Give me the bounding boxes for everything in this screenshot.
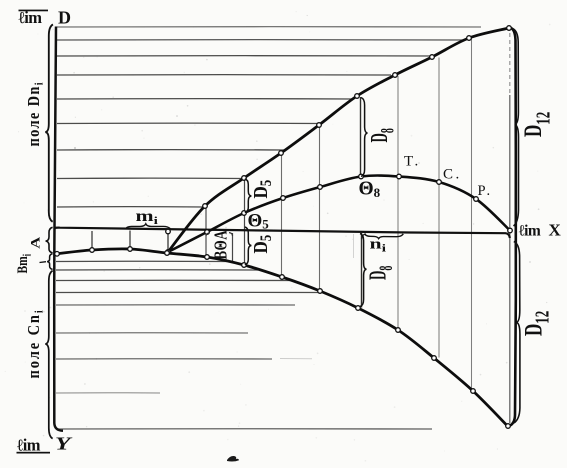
brace D5 upper: from curve Dn to curve Theta: [245, 179, 252, 213]
svg-text:Y: Y: [55, 434, 72, 453]
label lim X (right end of axis): [519, 221, 562, 240]
svg-text:ℓim: ℓim: [17, 436, 41, 455]
svg-text:D: D: [58, 7, 71, 27]
left big brace for pole Cn_i: [45, 271, 52, 439]
left small brace for Bm_i: [47, 254, 53, 270]
axis Y: left vertical axis from lim D down to lim Y: [54, 27, 63, 431]
svg-text:A: A: [29, 236, 43, 248]
curve Dn: top curve rising to lim D level: [168, 28, 509, 252]
node circles on curves: [55, 26, 513, 429]
svg-text:поле Dni: поле Dni: [25, 81, 46, 146]
horizontal field grid lines of pole Dn_i (above axis) and pole Cn_i (below axis): [56, 27, 481, 429]
rounded top hooks of B-Theta-A cell: [206, 233, 210, 236]
left brace for interval A: [46, 227, 53, 253]
brace D8 lower: from axis to curve Cn: [360, 234, 367, 307]
svg-text:ℓim: ℓim: [19, 8, 43, 27]
pointer tick from Bm_i label to its brace: [40, 261, 47, 264]
brace D8 upper: from curve Dn to curve Theta: [361, 98, 368, 177]
label lim Y with underline (bottom left): [17, 434, 73, 454]
horizontal brace marking m_i interval on axis: [126, 224, 170, 229]
small ink blob at bottom center: [227, 456, 239, 462]
svg-text:T.: T.: [404, 154, 421, 170]
faint tail of grid line: [280, 358, 312, 360]
brace D5 lower: from axis to curve Cn: [245, 227, 252, 265]
label lim D with overline (top left): [19, 7, 72, 27]
svg-text:P.: P.: [478, 183, 493, 199]
faint scan specks: [74, 147, 76, 149]
axis X: horizontal axis from point A to lim X: [55, 228, 510, 238]
rounded top hook of lower D8 vertical: [362, 234, 367, 239]
svg-text:поле Cni: поле Cni: [25, 308, 46, 378]
svg-text:BΘA: BΘA: [212, 230, 231, 260]
brace D12 lower: right side from axis to curve Cn end: [514, 242, 520, 424]
svg-text:X: X: [549, 221, 562, 240]
svg-text:ℓim: ℓim: [519, 223, 541, 240]
horizontal brace marking n_i interval under axis: [365, 234, 404, 239]
curve Theta: middle curve through T. C. P. to lim X: [168, 176, 510, 252]
brace D12 upper: right side from lim D level to axis: [513, 29, 519, 227]
curve Cn: bottom curve falling to lim Y level: [55, 249, 508, 427]
vertical ordinate lines m_i / B-Theta-A cell / D5 / D8 / D12 measurement verticals: [92, 33, 510, 423]
left big brace for pole Dn_i: [45, 25, 53, 222]
svg-text:C.: C.: [443, 167, 462, 183]
right vertical drop of curve Dn down to the end of curve Cn: [508, 28, 516, 427]
